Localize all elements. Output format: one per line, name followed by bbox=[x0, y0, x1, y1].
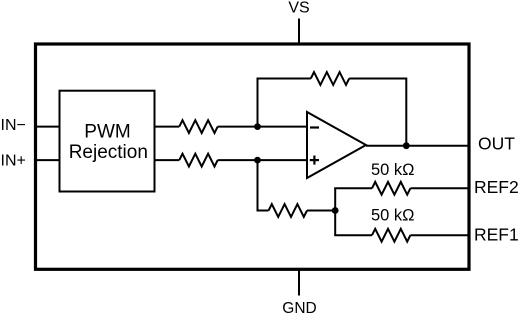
wire ref junction vertical bbox=[334, 188, 336, 235]
wire R6 to REF1 pin bbox=[410, 234, 467, 236]
wire GND stub bbox=[298, 269, 300, 295]
wire VS stub bbox=[298, 19, 300, 45]
PWM Rejection block bbox=[60, 91, 155, 192]
svg-text:OUT: OUT bbox=[478, 134, 515, 154]
wire plus node down vertical bbox=[257, 160, 259, 210]
node junction reference bbox=[332, 207, 339, 214]
svg-text:GND: GND bbox=[282, 300, 316, 316]
wire R1 to op-amp minus input bbox=[218, 126, 307, 128]
svg-text:VS: VS bbox=[288, 0, 309, 17]
IC boundary box bbox=[36, 44, 470, 269]
wire ref junction to R6 bbox=[334, 234, 372, 236]
svg-text:IN−: IN− bbox=[1, 117, 26, 134]
resistor R2 (IN+ path) bbox=[179, 154, 217, 167]
wire R5 to REF2 pin bbox=[410, 187, 467, 189]
wire feedback right vertical bbox=[405, 78, 407, 146]
wire feedback left vertical bbox=[257, 79, 259, 127]
resistor R1 (IN- path) bbox=[179, 120, 217, 133]
wire feedback top left horizontal bbox=[257, 78, 311, 80]
wire stub to R4 bbox=[257, 210, 269, 212]
node junction minus input bbox=[254, 123, 261, 130]
svg-text:REF1: REF1 bbox=[474, 224, 519, 244]
wire R4 to ref junction bbox=[307, 210, 335, 212]
svg-text:REF2: REF2 bbox=[474, 177, 519, 197]
resistor R3 (feedback) bbox=[311, 72, 349, 85]
wire PWM to R2 bbox=[155, 159, 180, 161]
resistor R6 50k (REF1) bbox=[372, 229, 410, 242]
wire PWM to R1 bbox=[155, 126, 180, 128]
svg-text:50 kΩ: 50 kΩ bbox=[371, 161, 415, 179]
svg-text:50 kΩ: 50 kΩ bbox=[371, 207, 415, 225]
node junction plus input bbox=[254, 157, 261, 164]
wire R2 to op-amp plus input bbox=[218, 159, 307, 161]
wire IN- to PWM block bbox=[36, 126, 60, 128]
svg-text:Rejection: Rejection bbox=[69, 142, 148, 163]
wire feedback top right horizontal bbox=[349, 78, 406, 80]
op-amp bbox=[307, 112, 366, 178]
wire IN+ to PWM block bbox=[36, 159, 60, 161]
svg-text:PWM: PWM bbox=[84, 122, 130, 143]
resistor R4 (to reference divider) bbox=[269, 204, 307, 217]
node junction output bbox=[403, 142, 410, 149]
resistor R5 50k (REF2) bbox=[372, 182, 410, 195]
svg-text:IN+: IN+ bbox=[1, 152, 26, 169]
wire op-amp output to OUT pin bbox=[366, 145, 468, 147]
wire ref junction to R5 bbox=[334, 187, 372, 189]
